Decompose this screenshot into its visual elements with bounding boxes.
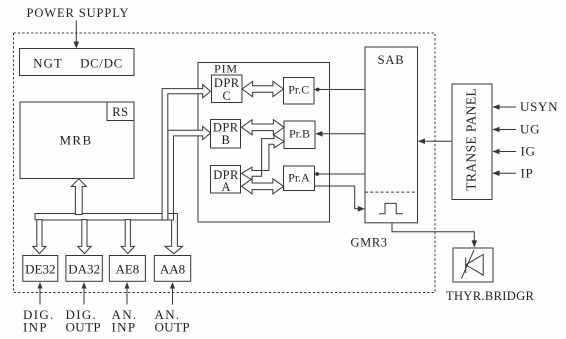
svg-text:OUTP: OUTP xyxy=(155,320,191,335)
outer dashed enclosure xyxy=(14,33,436,293)
wire USYN input xyxy=(493,99,559,114)
svg-text:AA8: AA8 xyxy=(160,262,185,277)
block RS xyxy=(107,102,134,121)
bus arrow bus to MRB xyxy=(71,179,86,215)
svg-text:Pr.C: Pr.C xyxy=(288,83,309,97)
svg-text:DA32: DA32 xyxy=(68,262,100,277)
bus MRB bus to DPR B hollow wire xyxy=(168,126,211,220)
node DIG. INP label xyxy=(23,307,55,335)
wire DIG.OUTP arrow into DA32 xyxy=(82,282,87,305)
svg-text:IG: IG xyxy=(521,144,536,159)
block SAB xyxy=(365,47,418,223)
block MRB xyxy=(20,102,134,179)
svg-text:POWER SUPPLY: POWER SUPPLY xyxy=(27,6,130,20)
bus horizontal data bus with arrow into AA8 xyxy=(35,214,183,254)
svg-text:C: C xyxy=(223,89,231,103)
node AN. OUTP label xyxy=(155,307,191,335)
svg-text:NGT: NGT xyxy=(33,56,63,71)
svg-text:USYN: USYN xyxy=(520,99,558,114)
svg-text:A: A xyxy=(221,180,230,194)
svg-text:SAB: SAB xyxy=(378,53,405,67)
block Pr.B xyxy=(284,121,315,149)
svg-text:THYR.BRIDGR: THYR.BRIDGR xyxy=(446,289,535,303)
svg-text:IP: IP xyxy=(521,165,534,180)
node SAB internal dashed divider xyxy=(365,191,418,193)
svg-text:TRANSE PANEL: TRANSE PANEL xyxy=(464,88,479,191)
bus DPR B to Pr.B double arrow xyxy=(242,120,285,135)
svg-text:DC/DC: DC/DC xyxy=(80,56,123,71)
bus arrow bus to AE8 xyxy=(121,220,134,254)
bus DPR C to Pr.C double arrow xyxy=(242,81,284,96)
node GMR3 pulse symbol xyxy=(379,203,403,213)
bus DPR A to Pr.A double arrow xyxy=(242,179,284,194)
block AA8 xyxy=(154,256,190,282)
wire IG input xyxy=(493,144,536,159)
svg-text:Pr.B: Pr.B xyxy=(289,127,310,141)
block Pr.A xyxy=(284,166,315,191)
svg-text:OUTP: OUTP xyxy=(66,320,102,335)
svg-text:UG: UG xyxy=(520,122,540,137)
thyristor symbol xyxy=(465,258,467,274)
node AN. INP label xyxy=(112,307,138,335)
bus DPR A to Pr.B Z-shaped double arrow xyxy=(242,135,285,180)
block THYR.BRIDGR xyxy=(446,248,535,303)
svg-text:INP: INP xyxy=(23,320,48,335)
block DE32 xyxy=(23,256,58,282)
svg-text:Pr.A: Pr.A xyxy=(288,171,310,185)
bus arrow bus to DA32 xyxy=(78,220,91,254)
wire SAB to Pr.B xyxy=(316,131,366,137)
svg-text:AE8: AE8 xyxy=(115,262,139,277)
block PIM xyxy=(198,62,330,223)
block DPR B xyxy=(211,120,241,149)
block DPR C xyxy=(212,75,243,103)
wire DIG.INP arrow into DE32 xyxy=(38,282,43,305)
block Pr.C xyxy=(284,78,315,105)
wire TRANSE PANEL to SAB xyxy=(418,138,452,144)
svg-text:MRB: MRB xyxy=(59,133,92,148)
wire Pr.A to SAB xyxy=(315,172,366,176)
block TRANSE PANEL xyxy=(452,84,492,200)
block AE8 xyxy=(109,256,145,282)
block DA32 xyxy=(66,256,102,282)
node DIG. OUTP label xyxy=(66,307,102,335)
wire Pr.C to SAB xyxy=(314,88,365,92)
svg-text:GMR3: GMR3 xyxy=(351,236,388,250)
svg-text:INP: INP xyxy=(112,320,137,335)
svg-text:RS: RS xyxy=(112,105,129,119)
wire AN.OUTP arrow into AA8 xyxy=(170,282,175,305)
svg-text:B: B xyxy=(222,133,230,147)
block DPR A xyxy=(211,166,241,194)
bus arrow bus to DE32 xyxy=(33,220,46,254)
wire Pr.A to SAB GMR input xyxy=(315,186,365,212)
wire AN.INP arrow into AE8 xyxy=(125,282,130,305)
wire SAB to THYR.BRIDGR xyxy=(392,223,477,248)
block NGT DC/DC xyxy=(20,49,135,76)
svg-text:PIM: PIM xyxy=(214,62,238,76)
wire UG input xyxy=(493,122,541,137)
bus MRB bus to DPR C hollow wire xyxy=(162,85,210,220)
svg-text:DE32: DE32 xyxy=(25,262,55,277)
wire power supply down arrow xyxy=(74,21,80,49)
wire IP input xyxy=(493,165,534,180)
